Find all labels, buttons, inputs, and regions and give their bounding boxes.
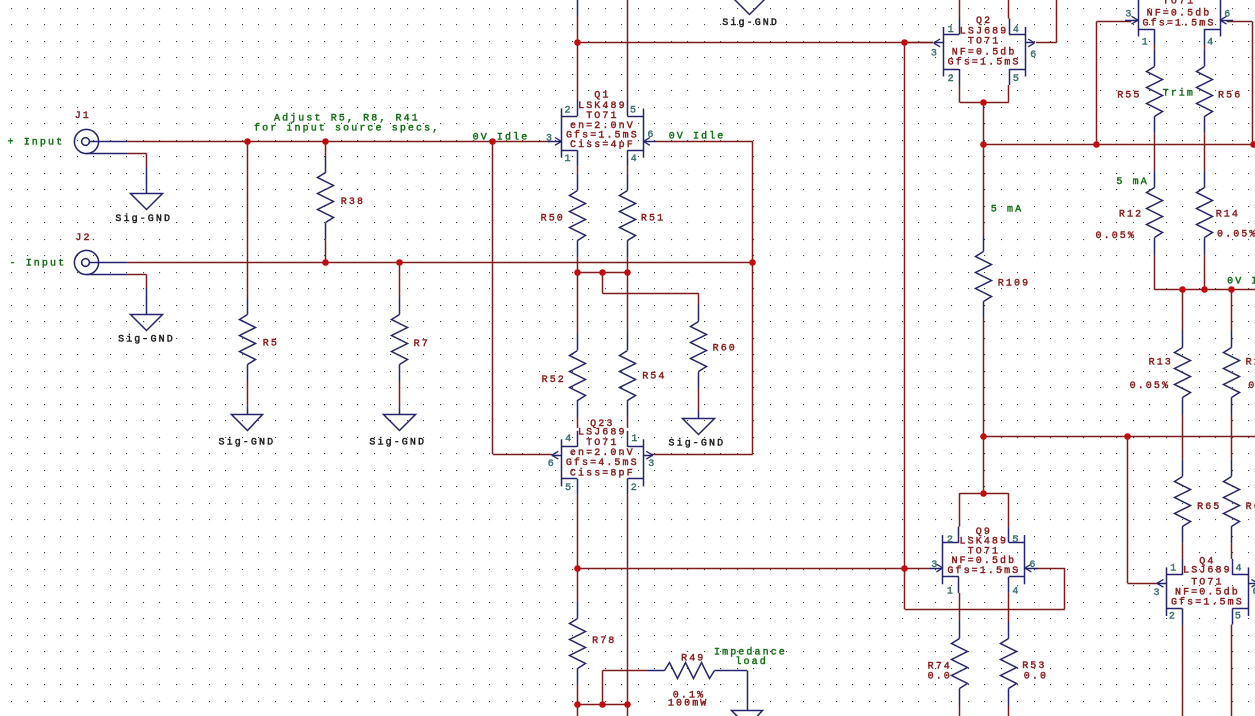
svg-text:Q1: Q1	[594, 90, 610, 101]
svg-text:5 mA: 5 mA	[991, 205, 1023, 216]
svg-text:3: 3	[546, 134, 554, 145]
svg-text:1: 1	[947, 586, 955, 597]
svg-text:2: 2	[1169, 612, 1177, 623]
svg-text:4: 4	[565, 434, 573, 445]
svg-text:1: 1	[1170, 563, 1178, 574]
svg-text:0.05%: 0.05%	[1096, 231, 1137, 242]
svg-text:3: 3	[931, 560, 939, 571]
svg-text:0V Idle: 0V Idle	[669, 131, 726, 143]
svg-text:2: 2	[631, 483, 639, 494]
svg-text:TO71: TO71	[586, 438, 618, 449]
svg-text:Gfs=1.5mS: Gfs=1.5mS	[947, 565, 1020, 577]
svg-text:5: 5	[630, 105, 638, 116]
svg-text:2: 2	[947, 535, 955, 546]
svg-text:R49: R49	[681, 654, 705, 665]
svg-text:R14: R14	[1216, 209, 1240, 220]
svg-text:R60: R60	[713, 344, 737, 355]
svg-text:TO71: TO71	[1163, 0, 1195, 8]
svg-text:Sig-GND: Sig-GND	[219, 437, 276, 449]
svg-text:load: load	[735, 656, 767, 668]
svg-text:J1: J1	[75, 111, 91, 122]
svg-text:Ciss=4pF: Ciss=4pF	[570, 139, 635, 151]
svg-text:Gfs=1.5mS: Gfs=1.5mS	[948, 57, 1021, 69]
svg-text:6: 6	[647, 130, 655, 141]
svg-text:Sig-GND: Sig-GND	[118, 334, 175, 346]
svg-text:5: 5	[1013, 74, 1021, 85]
svg-text:0.0: 0.0	[928, 672, 952, 683]
svg-text:- Input: - Input	[10, 259, 67, 270]
svg-text:R65: R65	[1197, 502, 1221, 513]
svg-text:3: 3	[1125, 9, 1133, 20]
svg-text:R15: R15	[1246, 358, 1255, 369]
svg-text:R7: R7	[414, 339, 430, 350]
svg-text:6: 6	[1224, 9, 1232, 20]
svg-text:R52: R52	[542, 375, 566, 386]
svg-text:0.0: 0.0	[1248, 381, 1255, 392]
svg-text:3: 3	[931, 48, 939, 59]
svg-text:Sig-GND: Sig-GND	[669, 437, 726, 449]
svg-text:5 mA: 5 mA	[1116, 177, 1148, 188]
svg-text:Ciss=8pF: Ciss=8pF	[570, 468, 635, 480]
svg-text:6: 6	[548, 459, 556, 470]
svg-text:Gfs=4.5mS: Gfs=4.5mS	[566, 457, 639, 469]
svg-text:Gfs=1.5mS: Gfs=1.5mS	[1171, 596, 1244, 608]
svg-text:R66: R66	[1246, 502, 1255, 513]
svg-text:Q2: Q2	[976, 16, 992, 27]
svg-text:R54: R54	[642, 372, 666, 383]
svg-text:Trim: Trim	[1163, 87, 1195, 99]
svg-text:4: 4	[1207, 38, 1215, 49]
svg-text:3: 3	[1154, 588, 1162, 599]
svg-text:1: 1	[948, 25, 956, 36]
svg-text:R5: R5	[263, 339, 279, 350]
svg-text:R51: R51	[641, 214, 665, 225]
svg-text:100mW: 100mW	[668, 699, 709, 710]
svg-text:R50: R50	[541, 214, 565, 225]
svg-text:1: 1	[565, 154, 573, 165]
svg-text:0V Id: 0V Id	[1227, 275, 1255, 287]
svg-text:R55: R55	[1117, 91, 1141, 102]
svg-text:0.05%: 0.05%	[1130, 381, 1171, 392]
svg-text:1: 1	[631, 434, 639, 445]
svg-text:6: 6	[1029, 560, 1037, 571]
svg-text:5: 5	[565, 483, 573, 494]
svg-text:Gfs=1.5mS: Gfs=1.5mS	[1143, 18, 1216, 30]
svg-text:R78: R78	[592, 636, 616, 647]
svg-text:R13: R13	[1149, 358, 1173, 369]
svg-text:2: 2	[948, 74, 956, 85]
svg-text:Sig-GND: Sig-GND	[369, 437, 426, 449]
svg-text:0V Idle: 0V Idle	[473, 132, 530, 144]
svg-text:TO71: TO71	[968, 37, 1000, 48]
svg-text:Sig-GND: Sig-GND	[722, 17, 779, 29]
svg-text:3: 3	[648, 459, 656, 470]
svg-text:4: 4	[1013, 25, 1021, 36]
svg-text:R56: R56	[1218, 91, 1242, 102]
svg-text:4: 4	[631, 154, 639, 165]
svg-text:6: 6	[1030, 50, 1038, 61]
svg-text:4: 4	[1012, 586, 1020, 597]
svg-text:2: 2	[565, 105, 573, 116]
svg-text:5: 5	[1012, 535, 1020, 546]
svg-text:0.0: 0.0	[1024, 671, 1048, 682]
svg-text:5: 5	[1235, 612, 1243, 623]
svg-text:Sig-GND: Sig-GND	[115, 213, 172, 225]
svg-text:1: 1	[1142, 38, 1150, 49]
svg-text:4: 4	[1236, 563, 1244, 574]
svg-text:LSJ689: LSJ689	[1183, 566, 1232, 577]
svg-text:0.05%: 0.05%	[1217, 230, 1255, 241]
svg-text:R38: R38	[341, 197, 365, 208]
svg-text:+ Input: + Input	[8, 138, 65, 149]
svg-text:J2: J2	[75, 233, 91, 244]
svg-text:R12: R12	[1119, 210, 1143, 221]
svg-text:for input source specs,: for input source specs,	[254, 123, 440, 135]
svg-text:R109: R109	[998, 278, 1030, 289]
